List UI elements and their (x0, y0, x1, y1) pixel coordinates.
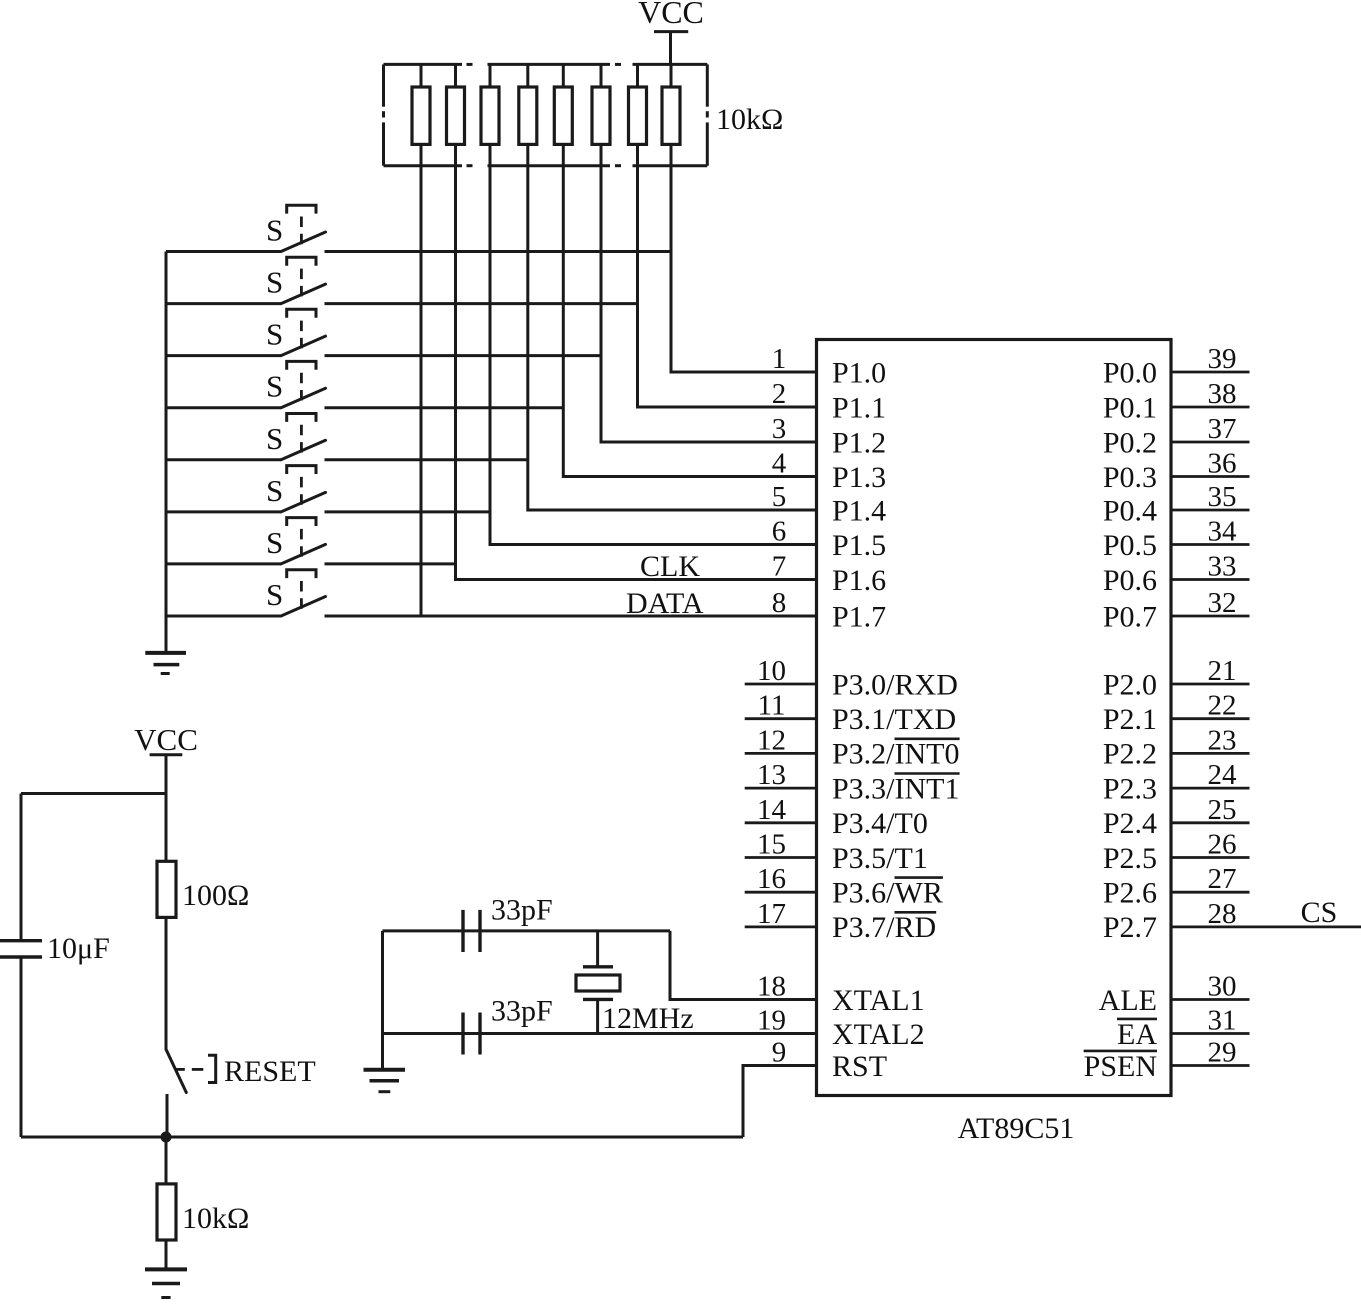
svg-text:P2.1: P2.1 (1103, 703, 1157, 736)
svg-text:36: 36 (1208, 448, 1237, 480)
svg-text:AT89C51: AT89C51 (958, 1112, 1075, 1145)
pin stub 33 (P0.6) (1171, 578, 1250, 581)
svg-text:16: 16 (757, 863, 786, 895)
pin stub 12 (P3.2) (745, 752, 817, 755)
wire switch row 8 left segment (166, 615, 281, 618)
svg-text:23: 23 (1208, 724, 1237, 756)
pin stub 34 (P0.5) (1171, 543, 1250, 546)
resistor RP1-8 10k (662, 64, 680, 165)
svg-text:RESET: RESET (224, 1055, 316, 1088)
pin stub 37 (P0.2) (1171, 441, 1250, 444)
svg-text:2: 2 (772, 378, 787, 410)
wire switch row 6 left segment (166, 510, 281, 513)
wire crystal right vertical + pin 18 lead (670, 931, 817, 1000)
svg-text:14: 14 (757, 794, 787, 826)
pin stub 27 (P2.6) (1171, 891, 1250, 894)
svg-text:RST: RST (832, 1050, 887, 1083)
svg-text:P3.7/RD: P3.7/RD (832, 911, 936, 944)
pin stub 26 (P2.5) (1171, 856, 1250, 859)
svg-text:10kΩ: 10kΩ (716, 103, 783, 136)
svg-text:S: S (266, 473, 283, 508)
svg-text:S: S (266, 577, 283, 612)
svg-text:P0.3: P0.3 (1103, 461, 1157, 494)
resistor RP1-3 10k (481, 64, 499, 165)
svg-text:P3.2/INT0: P3.2/INT0 (832, 738, 960, 771)
resistor RP1-1 10k (412, 64, 430, 165)
svg-text:P1.4: P1.4 (832, 494, 886, 527)
switch S3 (pushbutton) (266, 309, 326, 355)
svg-text:DATA: DATA (626, 587, 704, 620)
wire switch row 4 right segment to bus (325, 406, 564, 409)
svg-text:CLK: CLK (640, 550, 700, 583)
svg-text:10kΩ: 10kΩ (182, 1202, 249, 1235)
wire switch row 1 right segment to bus (325, 250, 672, 253)
svg-text:21: 21 (1208, 655, 1237, 687)
wire XTAL2 / pin 19 rail (383, 1032, 817, 1035)
wire crystal ground leg (381, 931, 384, 1070)
wire RST rail up to pin 9 (743, 1066, 817, 1138)
wire net P1.6 : resistor 2 down, bend right to IC pin 7 (456, 166, 817, 580)
svg-text:P0.7: P0.7 (1103, 600, 1157, 633)
ground (reset circuit) (145, 1269, 187, 1297)
wire switch row 6 right segment to bus (325, 510, 491, 513)
pin stub 21 (P2.0) (1171, 683, 1250, 686)
wire DATA row: switch 8 to IC pin 8 (325, 615, 817, 618)
svg-text:6: 6 (772, 516, 787, 548)
node junction (RST net) (161, 1132, 172, 1143)
svg-text:10μF: 10μF (47, 932, 110, 965)
wire net P1.0 : resistor 8 down, bend right to IC pin 1 (671, 166, 817, 372)
switch S9 RESET (pushbutton) (166, 1049, 216, 1092)
power symbol VCC (reset circuit) (134, 722, 198, 861)
pin label P3.1/TXD (832, 703, 956, 736)
svg-text:32: 32 (1208, 587, 1237, 619)
svg-text:28: 28 (1208, 898, 1237, 930)
svg-text:P1.0: P1.0 (832, 356, 886, 389)
pin stub 29 (1171, 1064, 1250, 1067)
svg-text:13: 13 (757, 759, 786, 791)
svg-text:38: 38 (1208, 378, 1237, 410)
pin label EA (overline) (1117, 1018, 1157, 1051)
wire XTAL1 top rail (383, 929, 671, 932)
svg-text:P3.0/RXD: P3.0/RXD (832, 668, 958, 701)
svg-text:12: 12 (757, 724, 786, 756)
svg-text:S: S (266, 213, 283, 248)
pin label P3.6/WR (832, 877, 943, 910)
wire net P1.4 : resistor 4 down, bend right to IC pin 5 (528, 166, 817, 510)
pin stub 13 (P3.3) (745, 787, 817, 790)
pin stub 23 (P2.2) (1171, 752, 1250, 755)
svg-text:XTAL2: XTAL2 (832, 1018, 925, 1051)
svg-text:P0.5: P0.5 (1103, 529, 1157, 562)
wire switch row 5 left segment (166, 458, 281, 461)
capacitor C1 33pF (463, 910, 480, 952)
pin stub 10 (P3.0) (745, 683, 817, 686)
svg-text:19: 19 (757, 1005, 786, 1037)
svg-text:P0.2: P0.2 (1103, 426, 1157, 459)
svg-text:P2.4: P2.4 (1103, 807, 1157, 840)
svg-text:S: S (266, 525, 283, 560)
pin stub 14 (P3.4) (745, 821, 817, 824)
svg-text:P0.0: P0.0 (1103, 356, 1157, 389)
svg-text:8: 8 (772, 587, 787, 619)
switch S5 (pushbutton) (266, 414, 326, 460)
wire switch row 7 right segment to bus (325, 562, 456, 565)
svg-text:P0.4: P0.4 (1103, 494, 1157, 527)
svg-text:P0.1: P0.1 (1103, 391, 1157, 424)
svg-text:33pF: 33pF (491, 894, 553, 927)
svg-text:33pF: 33pF (491, 995, 553, 1028)
capacitor C3 10μF (0, 794, 42, 1138)
svg-text:P2.7: P2.7 (1103, 911, 1157, 944)
switch S1 (pushbutton) (266, 205, 326, 251)
pin label P3.5/T1 (832, 842, 928, 875)
switch S7 (pushbutton) (266, 518, 326, 564)
pin label P3.7/RD (832, 911, 936, 944)
wire net P1.7 : resistor 1 down to DATA row (420, 166, 423, 616)
wire net CS (pin 28, P2.7) (1171, 926, 1361, 929)
pin stub 38 (P0.1) (1171, 406, 1250, 409)
svg-text:P3.1/TXD: P3.1/TXD (832, 703, 956, 736)
svg-text:35: 35 (1208, 481, 1237, 513)
wire net P1.3 : resistor 5 down, bend right to IC pin 4 (563, 166, 816, 477)
svg-text:1: 1 (772, 343, 787, 375)
svg-text:P2.6: P2.6 (1103, 877, 1157, 910)
wire switch row 3 right segment to bus (325, 354, 602, 357)
resistor RP1-2 10k (447, 64, 465, 165)
svg-text:31: 31 (1208, 1005, 1237, 1037)
svg-text:XTAL1: XTAL1 (832, 984, 925, 1017)
pin stub 24 (P2.3) (1171, 787, 1250, 790)
pin stub 39 (P0.0) (1171, 371, 1250, 374)
pin stub 15 (P3.5) (745, 856, 817, 859)
svg-text:S: S (266, 317, 283, 352)
pin stub 11 (P3.1) (745, 717, 817, 720)
svg-text:P1.3: P1.3 (832, 461, 886, 494)
pin stub 22 (P2.1) (1171, 717, 1250, 720)
resistor RP1-5 10k (554, 64, 572, 165)
svg-text:P3.3/INT1: P3.3/INT1 (832, 772, 960, 805)
pin stub 32 (P0.7) (1171, 615, 1250, 618)
svg-text:12MHz: 12MHz (602, 1002, 694, 1035)
pin stub 35 (P0.4) (1171, 509, 1250, 512)
pin label P3.3/INT1 (832, 772, 960, 805)
svg-text:18: 18 (757, 971, 786, 1003)
svg-text:100Ω: 100Ω (182, 879, 249, 912)
svg-text:P3.5/T1: P3.5/T1 (832, 842, 928, 875)
svg-text:9: 9 (772, 1037, 787, 1069)
svg-text:S: S (266, 421, 283, 456)
svg-text:CS: CS (1301, 896, 1338, 929)
wire net P1.5 : resistor 3 down, bend right to IC pin 6 (490, 166, 817, 545)
op-amp n/a : microcontroller U1 AT89C51 body (817, 340, 1172, 1096)
svg-text:P1.2: P1.2 (832, 426, 886, 459)
svg-text:PSEN: PSEN (1084, 1050, 1157, 1083)
svg-text:15: 15 (757, 829, 786, 861)
pin label PSEN (overline) (1084, 1050, 1157, 1083)
ground (crystal) (364, 1070, 406, 1092)
resistor RP1-7 10k (629, 64, 647, 165)
svg-text:P1.1: P1.1 (832, 391, 886, 424)
svg-text:S: S (266, 265, 283, 300)
svg-text:39: 39 (1208, 343, 1237, 375)
wire switch row 7 left segment (166, 562, 281, 565)
wire VCC rail to capacitor (21, 792, 166, 795)
svg-text:VCC: VCC (134, 722, 198, 757)
svg-text:P2.5: P2.5 (1103, 842, 1157, 875)
resistor RP1-4 10k (519, 64, 537, 165)
ground (switch bus) (145, 653, 186, 674)
svg-text:7: 7 (772, 551, 787, 583)
pin stub 31 (1171, 1032, 1250, 1035)
svg-text:24: 24 (1208, 759, 1238, 791)
svg-text:25: 25 (1208, 794, 1237, 826)
capacitor C2 33pF (463, 1013, 480, 1055)
wire switch row 5 right segment to bus (325, 458, 528, 461)
svg-text:27: 27 (1208, 863, 1237, 895)
crystal Y1 12MHz (576, 931, 620, 1034)
pin label P3.4/T0 (832, 807, 928, 840)
pin stub 17 (P3.7) (745, 926, 817, 929)
svg-text:33: 33 (1208, 551, 1237, 583)
wire switch row 2 right segment to bus (325, 302, 638, 305)
svg-text:34: 34 (1208, 516, 1238, 548)
svg-text:P3.4/T0: P3.4/T0 (832, 807, 928, 840)
wire RST net rail (21, 1136, 743, 1139)
resistor R2 10kΩ (157, 1137, 176, 1269)
switch S4 (pushbutton) (266, 361, 326, 407)
svg-text:P2.0: P2.0 (1103, 668, 1157, 701)
svg-text:29: 29 (1208, 1037, 1237, 1069)
svg-text:30: 30 (1208, 971, 1237, 1003)
power symbol VCC (top) (638, 0, 704, 64)
svg-text:11: 11 (758, 690, 786, 722)
svg-text:26: 26 (1208, 829, 1237, 861)
pin label P3.0/RXD (832, 668, 958, 701)
switch S8 (pushbutton) (266, 570, 326, 616)
svg-text:ALE: ALE (1099, 984, 1157, 1017)
svg-text:P1.5: P1.5 (832, 529, 886, 562)
resistor network RP1 outline (dash-dot box) (384, 64, 708, 165)
pin stub 30 (1171, 998, 1250, 1001)
svg-text:P1.6: P1.6 (832, 564, 886, 597)
resistor RP1-6 10k (592, 64, 610, 165)
pin label P3.2/INT0 (832, 738, 960, 771)
svg-text:P3.6/WR: P3.6/WR (832, 877, 943, 910)
wire net P1.2 : resistor 6 down, bend right to IC pin 3 (601, 166, 817, 442)
wire switch row 2 left segment (166, 302, 281, 305)
svg-text:4: 4 (772, 448, 787, 480)
svg-text:17: 17 (757, 898, 786, 930)
svg-text:P2.2: P2.2 (1103, 738, 1157, 771)
wire switch to junction (166, 1094, 169, 1137)
wire switch row 3 left segment (166, 354, 281, 357)
resistor R1 100Ω (157, 861, 176, 917)
pin stub 36 (P0.3) (1171, 475, 1250, 478)
svg-text:P1.7: P1.7 (832, 600, 886, 633)
wire switch row 4 left segment (166, 406, 281, 409)
wire net P1.1 : resistor 7 down, bend right to IC pin 2 (638, 166, 817, 407)
svg-text:3: 3 (772, 413, 787, 445)
svg-text:37: 37 (1208, 413, 1237, 445)
svg-text:S: S (266, 369, 283, 404)
svg-text:22: 22 (1208, 690, 1237, 722)
wire left switch bus (to ground) (165, 252, 168, 653)
switch S6 (pushbutton) (266, 466, 326, 512)
wire switch row 1 left segment (166, 250, 281, 253)
switch S2 (pushbutton) (266, 257, 326, 303)
svg-text:P2.3: P2.3 (1103, 772, 1157, 805)
svg-text:5: 5 (772, 481, 787, 513)
pin stub 16 (P3.6) (745, 891, 817, 894)
svg-text:EA: EA (1117, 1018, 1157, 1051)
wire R1 to reset switch (165, 917, 168, 1049)
svg-text:P0.6: P0.6 (1103, 564, 1157, 597)
svg-text:10: 10 (757, 655, 786, 687)
pin stub 25 (P2.4) (1171, 821, 1250, 824)
svg-text:VCC: VCC (638, 0, 704, 30)
